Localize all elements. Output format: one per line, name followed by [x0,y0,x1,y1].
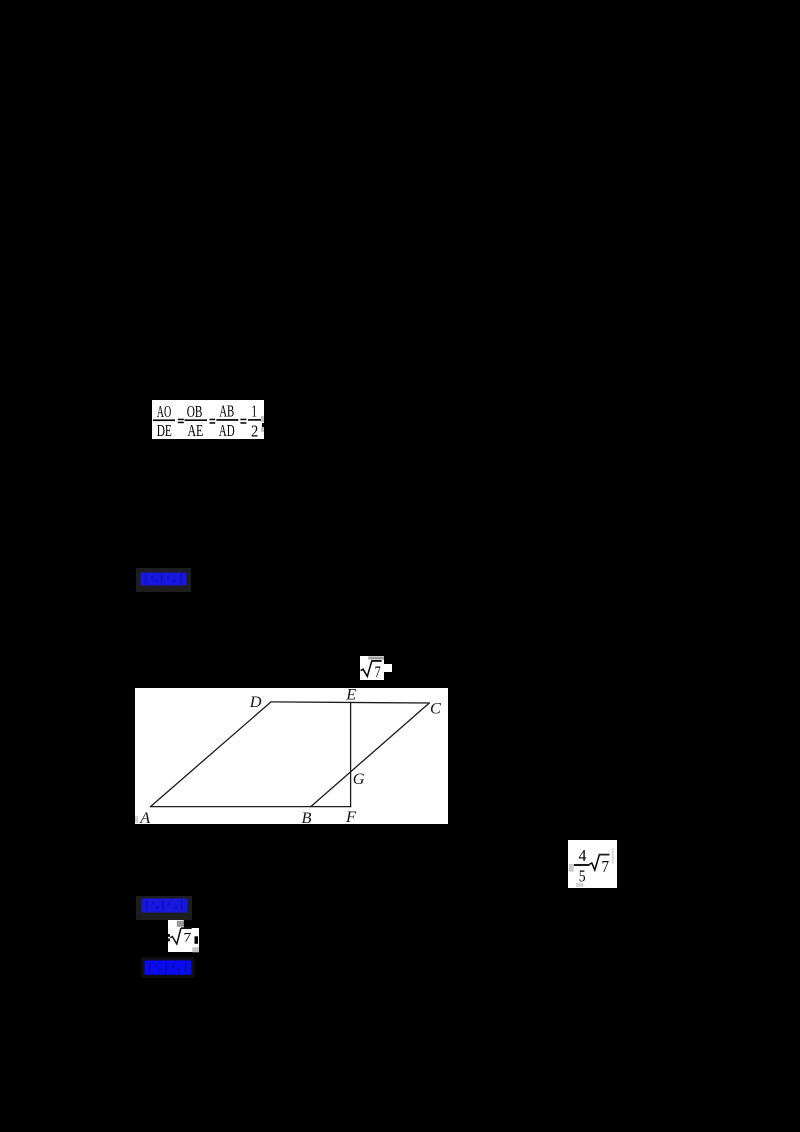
svg-text:2: 2 [251,421,258,439]
svg-text:7: 7 [375,664,381,680]
svg-text:AO: AO [157,402,172,421]
svg-text:D: D [249,692,262,711]
svg-text:F: F [345,807,357,824]
line B-C [311,703,430,807]
blue label 3 [141,957,195,978]
blue label 1 with dark backdrop [136,568,191,592]
svg-text:A: A [139,808,150,824]
svg-text:E: E [345,688,356,704]
svg-text:AD: AD [219,421,235,439]
vertical E-F [350,702,352,806]
blue label 2 with dark backdrop [136,896,192,920]
svg-text:C: C [430,699,442,718]
svg-text:AB: AB [219,402,234,421]
svg-text:7: 7 [184,929,192,944]
svg-text:7: 7 [602,857,610,876]
svg-text:G: G [353,769,365,788]
svg-text:1: 1 [251,402,257,421]
bottom line A-F [151,806,351,808]
top line D-C [271,702,429,703]
left side A-D [151,702,272,807]
formula image 1: AO/DE = OB/AE = AB/AD = 1/2 [152,400,264,439]
svg-text:AE: AE [188,421,204,439]
svg-text:4: 4 [578,846,586,865]
stray gray mark at left edge [135,816,138,823]
svg-text:OB: OB [187,402,203,421]
svg-text:DE: DE [157,421,172,439]
sqrt(7) inline image above figure [360,656,384,680]
comma cell after formula 1 [261,416,264,422]
svg-text:5: 5 [579,866,586,885]
formula image: 4/5 sqrt(7) [568,840,617,888]
small sqrt(7) formula image [168,920,192,952]
geometry figure: parallelogram ABCD with E,F,G [135,688,448,824]
svg-text:B: B [302,808,312,824]
